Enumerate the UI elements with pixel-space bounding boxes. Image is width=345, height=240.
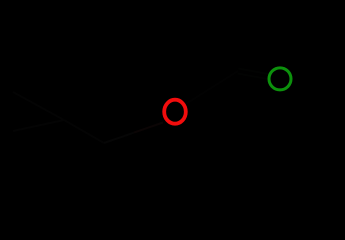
atom O2 carbonyl oxygen (green) [269,68,291,90]
bond O to carbonyl C3 [187,71,239,104]
double bond C3 = O2 line 2 [238,74,268,80]
bond CH3 to C1 (methyl b) [13,120,64,131]
bond CH3 to C1 (methyl a) [13,92,64,120]
atom O1 ester oxygen (red) [164,100,186,124]
bond C2 to O (ester oxygen), faint dark red half [104,133,134,143]
bond C1 to C2 [64,120,104,143]
double bond C3 = O2 line 1 [238,69,268,75]
